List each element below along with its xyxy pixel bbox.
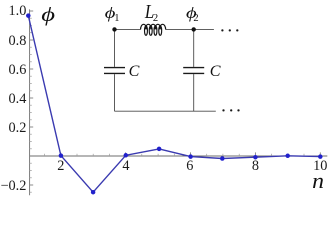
svg-text:1.0: 1.0	[9, 3, 27, 19]
svg-text:2: 2	[57, 158, 64, 174]
svg-text:n: n	[312, 169, 324, 193]
svg-text:6: 6	[186, 158, 193, 174]
svg-text:0.2: 0.2	[9, 120, 27, 136]
svg-text:1: 1	[114, 13, 119, 24]
svg-text:0.4: 0.4	[9, 91, 27, 107]
svg-text:C: C	[129, 63, 140, 80]
svg-text:−0.2: −0.2	[0, 178, 26, 194]
svg-text:ϕ: ϕ	[41, 4, 55, 26]
svg-text:2: 2	[153, 13, 158, 24]
svg-text:4: 4	[122, 158, 129, 174]
svg-text:C: C	[210, 63, 221, 80]
svg-text:2: 2	[193, 13, 198, 24]
svg-text:0.8: 0.8	[9, 33, 27, 49]
svg-text:0.6: 0.6	[9, 62, 27, 78]
svg-text:8: 8	[252, 158, 259, 174]
